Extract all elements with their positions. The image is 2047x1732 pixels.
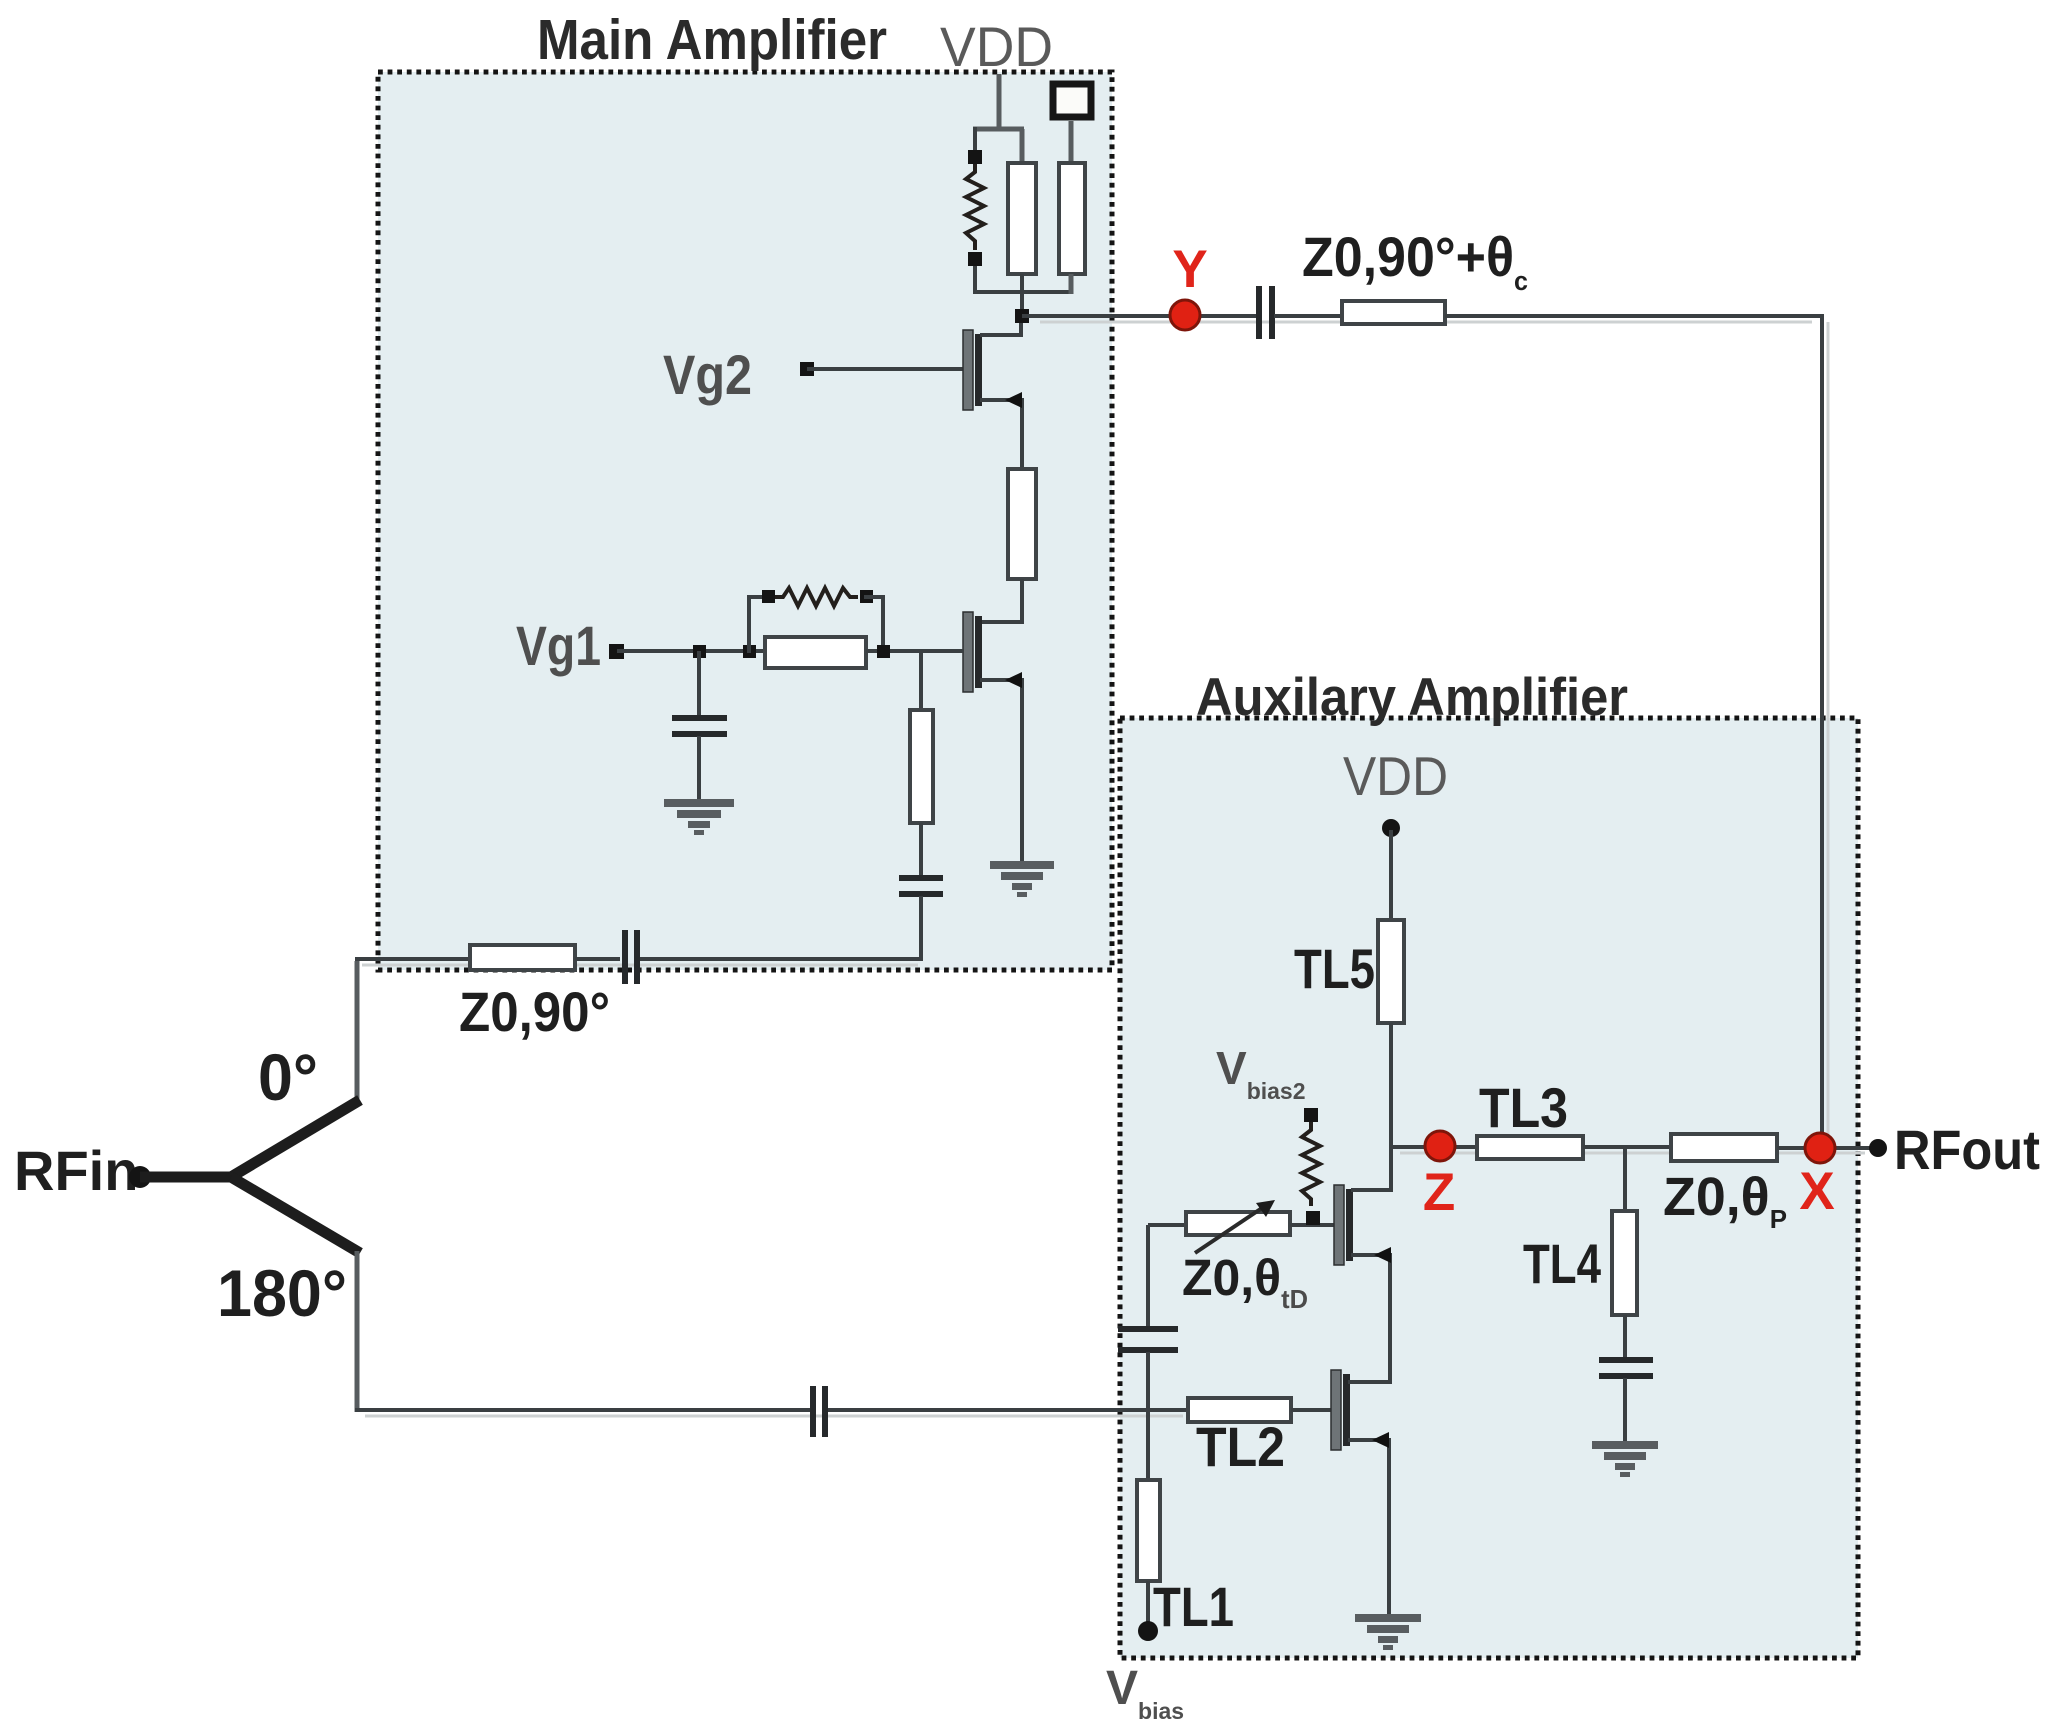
transistor M3 source arrow [1374,1247,1391,1263]
wire TL to C3 [575,957,620,961]
svg-text:Z: Z [1423,1163,1455,1222]
junction dot (decoupling cap tap) [693,645,706,658]
main amplifier box fill [378,72,1112,970]
auxiliary amplifier box dotted border [1120,718,1858,1658]
capacitor C7 (aux gate feed series) [1118,1329,1178,1350]
variable TL arrowhead [1256,1200,1275,1217]
capacitor C5 (aux input series) [813,1386,825,1437]
svg-text:RFout: RFout [1894,1118,2040,1181]
wire main input line left [355,957,470,961]
wire TL stub B bottom [1069,274,1074,294]
wire TL4 to C6 [1623,1315,1627,1359]
wire stub to TL stub A [1020,129,1025,165]
transistor M2 drain wire [980,314,1021,335]
transistor M4 gate bar [1331,1370,1341,1450]
transistor M4 drain wire [1348,1380,1390,1384]
wire resistor branch top [973,127,977,152]
svg-text:Main Amplifier: Main Amplifier [537,8,887,72]
node dot resistor bridge left [762,590,775,603]
svg-text:VDD: VDD [940,15,1053,78]
svg-text:TL4: TL4 [1523,1232,1601,1295]
svg-text:Auxilary Amplifier: Auxilary Amplifier [1196,668,1628,727]
transistor M2 gate bar [963,330,973,410]
resistor R1 drain-bias [966,164,984,250]
interstage transmission line (between M2 source and M1 drain) [1008,469,1036,579]
wire VDD tee [973,127,1024,132]
ground (TL4 branch) [1592,1441,1658,1477]
wire pad to TL stub B [1069,121,1074,165]
node X (red) [1805,1133,1835,1163]
svg-text:TL2: TL2 [1196,1415,1285,1478]
transmission line stub B [1059,163,1085,274]
wire Vg2 to gate of M2 [807,367,963,371]
wire shadow right vertical [1827,322,1830,1142]
variable TL arrow [1195,1208,1262,1253]
wire riser from 0deg branch [355,961,360,1100]
svg-text:Z0,θP: Z0,θP [1663,1167,1787,1234]
node dot resistor top [968,150,982,164]
wire TL2 to M4 gate [1291,1408,1331,1412]
wire 180deg feed left [355,1408,812,1412]
wire cap to ground [697,736,701,800]
transistor M1 channel bar [975,616,982,688]
wire Z0thetaP to X [1777,1146,1870,1150]
wire TL to gate of M1 [866,649,963,653]
node dot Vg2 [800,362,814,376]
node dot resistor bridge right [860,590,873,603]
transmission line Z0,90 (main input) [470,945,575,970]
transmission line TL3 [1477,1136,1583,1159]
wire shadow 180 line [365,1415,1183,1418]
svg-text:180°: 180° [217,1256,347,1330]
wire cap stem [697,651,701,716]
transistor M4 source arrow [1372,1432,1389,1448]
svg-text:Y: Y [1172,240,1207,299]
wire TL1 to Vbias [1146,1581,1150,1626]
node dot RFout [1869,1139,1887,1157]
svg-text:Z0,90°+θc: Z0,90°+θc [1302,225,1528,296]
wire TL5 to Z node and M3 drain [1389,1023,1393,1192]
svg-text:TL3: TL3 [1479,1076,1568,1139]
node dot Vbias [1138,1621,1158,1641]
variable transmission line Z0,theta_tD [1186,1212,1290,1235]
junction dot gate node [877,645,890,658]
wire 180deg drop [355,1251,360,1412]
svg-text:TL5: TL5 [1294,937,1375,1000]
svg-text:X: X [1799,1162,1834,1221]
transmission line TL4 [1612,1211,1637,1315]
gate shunt transmission line stub [910,710,933,823]
wire Z node line [1391,1145,1477,1149]
wire splitter 180deg branch [231,1177,360,1253]
wire aux left vertical lower [1146,1352,1150,1482]
node Y (red) [1170,300,1200,330]
wire variable TL to M3 gate [1290,1223,1334,1227]
svg-text:0°: 0° [258,1040,318,1114]
pad (RF probe pad) [1053,84,1091,117]
capacitor C4 (output series) [1259,286,1272,339]
transistor M1 gate bar [963,612,973,692]
wire shadow input line [362,964,918,967]
capacitor C2 (gate stub) [899,878,943,894]
wire C2 to input line [919,896,923,961]
svg-text:RFin: RFin [14,1139,138,1202]
svg-text:Vg1: Vg1 [516,614,601,677]
wire TL3 to Z0thetaP TL [1583,1145,1671,1149]
transistor M3 drain wire [1351,1188,1391,1192]
wire 180deg feed right [828,1408,1188,1412]
junction dot (resistor bridge left) [743,645,756,658]
wire C3 to gate stub [640,957,923,961]
node dot Vbias2 bottom [1306,1211,1320,1225]
wire stub to C2 [919,823,923,877]
wire resistor branch bottom [973,266,977,294]
transistor M2 channel bar [975,334,982,406]
wire bottom bus of VDD net [973,290,1071,294]
transmission line Z0,thetaP [1671,1134,1777,1161]
capacitor C6 (TL4 shunt) [1599,1360,1653,1376]
ground (Vg1 cap) [664,799,734,835]
wire VDD feed down [997,74,1002,129]
transistor M4 source wire [1348,1440,1389,1616]
transmission line TL1 [1137,1480,1160,1581]
resistor R3 (Vbias2) [1302,1122,1320,1206]
transistor M3 gate bar [1334,1185,1344,1265]
transmission line Z0,90+thetac [1342,301,1445,324]
wire interstage TL to M1 drain [980,579,1022,622]
wire RFin [140,1172,235,1183]
svg-text:Z0,90°: Z0,90° [459,980,610,1043]
wire TL4 stem [1623,1147,1627,1213]
transistor M3 source wire [1351,1255,1390,1384]
svg-text:VDD: VDD [1343,745,1448,807]
wire TL to right corner and down to X [1445,316,1822,1148]
transmission line stub A [1008,163,1036,274]
wire shadow Z line [1400,1152,1865,1155]
wire variable TL left [1148,1223,1186,1227]
wire VDD to TL5 [1389,830,1393,922]
node dot Vbias2 [1304,1108,1318,1122]
wire gate stub down [919,651,923,712]
transistor M2 source arrow [1005,392,1022,408]
node Z (red) [1425,1131,1455,1161]
resistor R2 (gate bridge) [775,588,858,606]
transistor M1 source arrow [1005,672,1022,688]
node dot VDD aux [1382,819,1400,837]
wire aux left vertical upper [1146,1225,1150,1327]
node dot Vg1 [609,644,624,659]
svg-text:TL1: TL1 [1153,1575,1234,1638]
capacitor C1 (Vg1 decoupling) [672,718,727,734]
wire resistor bridge left stub [749,597,770,653]
wire splitter 0deg branch [231,1100,360,1177]
wire resistor bridge right stub [864,597,883,653]
svg-text:Vg2: Vg2 [663,343,752,406]
ground (M4 source) [1355,1614,1421,1650]
gate series transmission line [765,637,866,668]
transistor M2 source wire [980,400,1022,471]
wire C4 to TL [1274,314,1342,318]
node dot resistor bottom [968,252,982,266]
transmission line TL2 [1188,1398,1291,1422]
transistor M3 channel bar [1346,1189,1353,1261]
node dot drain junction [1015,309,1029,323]
wire Vg1 to gate TL [617,649,765,653]
ground (M1 source) [990,861,1054,897]
transistor M4 channel bar [1343,1374,1350,1446]
transmission line TL5 [1378,920,1404,1023]
transistor M1 source wire [980,680,1022,861]
wire C6 to ground [1623,1378,1627,1443]
main amplifier box dotted border [378,72,1112,970]
wire TL stub A bottom to node [1020,274,1024,316]
auxiliary amplifier box fill [1120,718,1858,1658]
capacitor C3 (main input series) [625,930,637,984]
wire shadow Y line [1040,321,1812,324]
node dot RFin [129,1166,151,1188]
wire drain node to Y [1022,314,1258,318]
